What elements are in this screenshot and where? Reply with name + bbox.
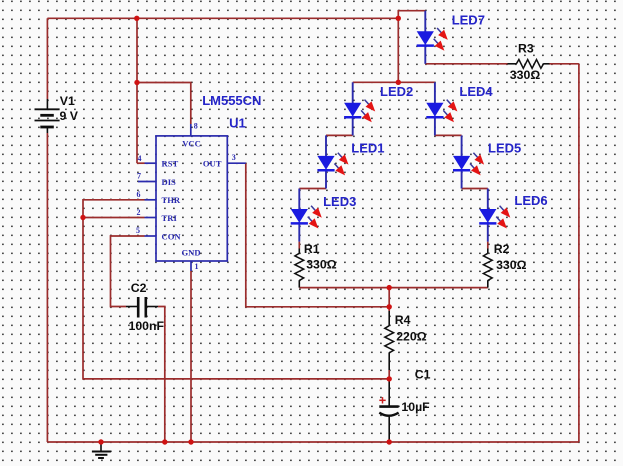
svg-text:8: 8 [194, 122, 198, 131]
svg-text:330Ω: 330Ω [510, 68, 541, 82]
svg-text:1: 1 [195, 262, 199, 271]
svg-text:LED6: LED6 [514, 193, 547, 208]
svg-text:5: 5 [136, 226, 140, 235]
svg-text:DIS: DIS [162, 177, 177, 187]
svg-text:LED7: LED7 [452, 13, 485, 28]
svg-text:2: 2 [137, 208, 141, 217]
svg-text:U1: U1 [229, 116, 246, 131]
svg-text:VCC: VCC [182, 138, 201, 148]
svg-text:LED2: LED2 [380, 84, 413, 99]
svg-text:330Ω: 330Ω [306, 257, 337, 271]
svg-text:R4: R4 [395, 313, 411, 327]
svg-text:220Ω: 220Ω [396, 330, 427, 344]
svg-text:7: 7 [137, 172, 141, 181]
svg-text:R1: R1 [304, 242, 320, 256]
svg-text:LED5: LED5 [488, 140, 521, 155]
svg-text:C2: C2 [131, 281, 147, 295]
svg-text:THR: THR [162, 195, 181, 205]
svg-text:RST: RST [162, 158, 179, 168]
svg-text:LED3: LED3 [323, 194, 356, 209]
svg-text:OUT: OUT [203, 158, 222, 168]
svg-text:C1: C1 [415, 367, 431, 381]
svg-text:LED4: LED4 [459, 84, 493, 99]
svg-text:LM555CN: LM555CN [202, 93, 261, 108]
svg-text:100nF: 100nF [129, 319, 165, 333]
svg-text:10µF: 10µF [401, 400, 430, 414]
svg-text:330Ω: 330Ω [496, 258, 527, 272]
svg-text:3: 3 [232, 153, 236, 162]
svg-text:TRI: TRI [162, 213, 178, 223]
svg-text:9 V: 9 V [60, 109, 79, 123]
svg-text:V1: V1 [60, 94, 75, 108]
svg-text:6: 6 [137, 190, 141, 199]
svg-text:GND: GND [181, 248, 200, 258]
svg-text:LED1: LED1 [351, 140, 384, 155]
svg-text:4: 4 [138, 154, 142, 163]
svg-text:R2: R2 [494, 242, 510, 256]
svg-text:CON: CON [162, 232, 182, 242]
svg-text:R3: R3 [518, 42, 534, 56]
